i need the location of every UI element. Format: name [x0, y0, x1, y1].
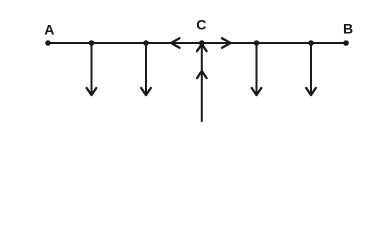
down arrow 4 head	[306, 88, 316, 95]
svg-text:C: C	[196, 16, 206, 32]
up arrow at C head 1 (at node)	[197, 44, 207, 51]
svg-text:B: B	[343, 20, 353, 36]
node dot 1	[89, 40, 95, 46]
down arrow 3 shaft	[256, 43, 258, 94]
node dot A end	[45, 40, 51, 46]
down arrow 2 shaft	[145, 43, 147, 94]
down arrow 1 head	[87, 88, 97, 95]
arrowhead pointing left toward A	[171, 38, 180, 48]
down arrow 3 head	[252, 88, 262, 95]
node dot 2	[143, 40, 149, 46]
node dot 4	[308, 40, 314, 46]
down arrow 2 head	[141, 88, 151, 95]
down arrow 1 shaft	[91, 43, 93, 94]
arrowhead pointing right toward B	[222, 38, 231, 48]
up arrow at C head 2 (middle)	[197, 71, 207, 78]
svg-text:A: A	[44, 21, 54, 37]
node dot B end	[343, 40, 349, 46]
node dot C	[199, 40, 205, 46]
down arrow 4 shaft	[310, 43, 312, 94]
node dot 3	[254, 40, 260, 46]
wire A-B horizontal line	[48, 42, 346, 44]
up arrow at C shaft	[201, 43, 203, 121]
